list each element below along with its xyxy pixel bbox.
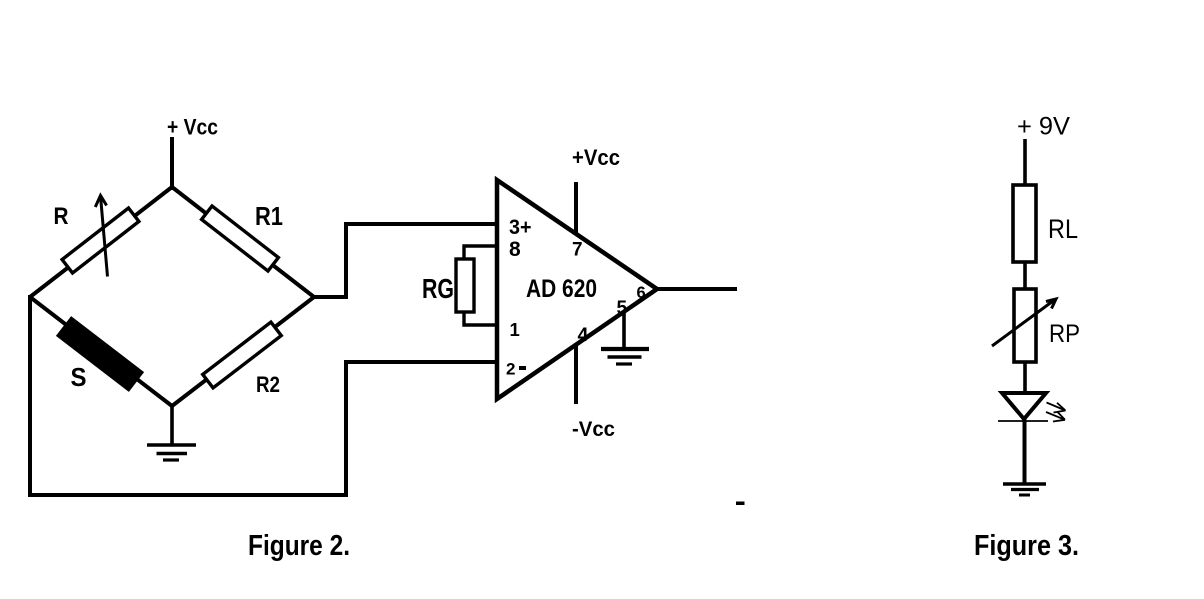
svg-text:+ Vcc: + Vcc bbox=[167, 115, 218, 140]
LED emission arrow 1 bbox=[1047, 403, 1066, 413]
wire +Vcc to pin 7 bbox=[574, 182, 578, 234]
svg-text:+Vcc: +Vcc bbox=[572, 145, 620, 170]
resistor R1 body bbox=[202, 206, 279, 271]
ground figure 3 bbox=[1003, 484, 1046, 495]
resistor R (variable) body bbox=[62, 208, 139, 273]
wire RL to RP bbox=[1023, 262, 1027, 290]
wire output bbox=[655, 287, 737, 291]
svg-text:3+: 3+ bbox=[509, 216, 532, 239]
svg-text:R1: R1 bbox=[255, 201, 283, 231]
sensor S body (filled) bbox=[57, 317, 142, 390]
wire LED to ground bbox=[1023, 419, 1027, 484]
svg-text:+ 9V: + 9V bbox=[1017, 113, 1070, 141]
wire bridge top-left edge bbox=[30, 187, 172, 297]
svg-text:RP: RP bbox=[1049, 320, 1080, 348]
svg-text:S: S bbox=[71, 362, 87, 392]
wire bridge bottom-right edge bbox=[172, 297, 314, 406]
potentiometer RP arrow bbox=[992, 301, 1053, 346]
resistor RG body bbox=[456, 259, 474, 312]
svg-text:8: 8 bbox=[509, 238, 521, 261]
svg-text:RG: RG bbox=[422, 273, 454, 304]
svg-text:Figure 3.: Figure 3. bbox=[974, 530, 1079, 562]
wire Vcc to bridge top node bbox=[170, 137, 174, 190]
svg-text:-Vcc: -Vcc bbox=[572, 418, 615, 441]
wire 9V to RL bbox=[1023, 139, 1027, 187]
wire bridge bottom node to ground bbox=[170, 406, 174, 444]
wire RG top lead bbox=[464, 246, 497, 260]
wire left node to inverting input (loop) bbox=[30, 295, 497, 495]
ground bridge bbox=[147, 445, 196, 460]
resistor R arrow bbox=[101, 197, 108, 277]
potentiometer RP arrowhead bbox=[1046, 299, 1056, 309]
ground op-amp bbox=[601, 349, 649, 364]
op-amp U1 AD620 triangle bbox=[497, 180, 657, 399]
wire bridge bottom-left edge bbox=[30, 297, 172, 406]
wire -Vcc from pin 4 bbox=[574, 344, 578, 404]
resistor RL body bbox=[1013, 185, 1036, 262]
svg-text:2: 2 bbox=[506, 360, 515, 379]
wire pin 5 to ground bbox=[622, 311, 626, 348]
svg-text:R: R bbox=[54, 203, 69, 230]
svg-text:7: 7 bbox=[572, 240, 583, 261]
svg-text:Figure 2.: Figure 2. bbox=[248, 530, 350, 562]
pin 2 minus dash bbox=[519, 366, 526, 370]
svg-text:6: 6 bbox=[637, 284, 646, 302]
wire RG bottom lead bbox=[464, 311, 497, 325]
diode cathode bar bbox=[998, 420, 1048, 422]
diode D1 LED triangle bbox=[1002, 393, 1046, 419]
svg-text:5: 5 bbox=[617, 298, 628, 319]
svg-text:1: 1 bbox=[510, 319, 520, 340]
svg-text:RL: RL bbox=[1048, 214, 1078, 244]
wire RP to LED bbox=[1023, 362, 1027, 394]
resistor R2 body bbox=[203, 322, 282, 388]
resistor R arrowhead bbox=[95, 196, 106, 208]
svg-text:4: 4 bbox=[578, 324, 589, 346]
LED emission arrow 2 bbox=[1046, 412, 1065, 422]
stray minus mark bbox=[736, 502, 745, 506]
svg-text:R2: R2 bbox=[256, 372, 280, 397]
wire bridge top-right edge bbox=[172, 187, 314, 297]
potentiometer RP body bbox=[1014, 289, 1036, 362]
wire right node to non-inverting input bbox=[314, 224, 497, 297]
svg-text:AD 620: AD 620 bbox=[526, 275, 597, 303]
